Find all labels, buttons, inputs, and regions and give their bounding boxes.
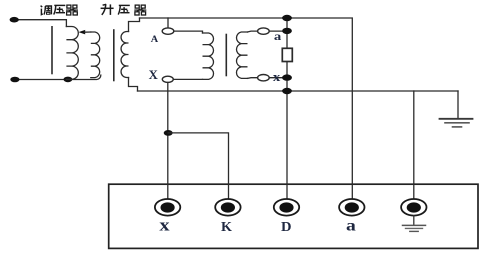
core bar: T1 xyxy=(113,30,115,81)
panel terminal x xyxy=(155,199,180,216)
label 器 #1 xyxy=(66,5,78,15)
wire: top-left input to variac top xyxy=(14,20,66,27)
terminal ellipse X xyxy=(162,76,173,82)
svg-text:K: K xyxy=(221,219,233,234)
label 升 xyxy=(101,4,114,15)
svg-text:a: a xyxy=(274,29,281,43)
core bar: variac xyxy=(51,27,53,74)
resistor R (discharge) xyxy=(282,48,292,61)
label 器 #2 xyxy=(134,5,146,15)
node: bus/x xyxy=(282,74,292,80)
svg-text:x: x xyxy=(273,69,281,84)
winding T2 LV (a-x) xyxy=(236,32,247,78)
node: variac bottom junction xyxy=(64,77,73,83)
wire: wiper tail to T1 primary xyxy=(85,31,91,33)
terminal dot: bottom-left input xyxy=(10,77,19,83)
panel terminal K xyxy=(215,199,240,216)
panel terminal D xyxy=(274,199,299,216)
svg-text:X: X xyxy=(149,68,158,82)
ground symbol under panel earth terminal xyxy=(403,216,426,232)
svg-text:a: a xyxy=(346,217,356,234)
terminal ellipse x xyxy=(258,75,270,81)
winding T2 HV (A-X) xyxy=(203,33,214,79)
terminal ellipse A xyxy=(162,28,174,34)
wire: bottom rail tap down to panel earth terminal xyxy=(413,91,415,199)
wire: x lead inside panel xyxy=(167,184,169,199)
core bar: T2 xyxy=(225,35,227,76)
node: bus/bottom-rail xyxy=(282,88,292,94)
wire: right bus from top rail down to panel terminal D xyxy=(286,18,288,199)
wire: bottom-left input to variac bottom rail xyxy=(15,75,101,79)
label 调 xyxy=(41,6,52,15)
panel terminal earth xyxy=(401,199,426,216)
wire: X down to panel terminal x xyxy=(167,82,169,199)
panel terminal a xyxy=(339,199,364,216)
node: x/K tap junction xyxy=(164,130,173,136)
winding L1: variac coil xyxy=(66,27,78,80)
winding T1 secondary xyxy=(121,32,128,78)
svg-text:x: x xyxy=(159,215,170,234)
wire: tap junction to panel terminal K xyxy=(168,133,228,199)
wire: stub from top rail to terminal A xyxy=(167,18,169,28)
label 压 #1 xyxy=(54,5,66,14)
panel box xyxy=(109,184,478,248)
wire: T1 secondary bottom lead to bottom rail xyxy=(129,78,138,92)
wiper arrow of variac xyxy=(79,30,86,35)
wire: D lead inside panel xyxy=(286,184,288,199)
winding T1 primary xyxy=(91,32,100,78)
wire: a to right bus xyxy=(269,30,287,32)
wire: LV top to terminal a xyxy=(248,30,258,33)
wire: top rail xyxy=(140,18,353,199)
wire: K lead inside panel xyxy=(228,184,230,199)
wire: bottom rail to right ground xyxy=(138,90,459,92)
wire: a lead inside panel xyxy=(351,184,353,199)
terminal ellipse a xyxy=(258,28,270,34)
node: bus/a xyxy=(282,28,292,34)
wire: A to HV winding top xyxy=(174,31,203,33)
wire: x to right bus xyxy=(269,77,287,79)
svg-text:A: A xyxy=(151,34,158,45)
wire: T1 secondary top lead to top rail xyxy=(129,18,140,32)
wire: earth lead inside panel xyxy=(413,184,415,199)
ground symbol right xyxy=(440,91,473,127)
svg-text:D: D xyxy=(281,219,292,234)
wire: LV bottom to terminal x xyxy=(248,77,258,80)
wire: HV winding bottom to X xyxy=(173,78,202,80)
label 压 #2 xyxy=(118,5,130,14)
node: bus/top-rail xyxy=(282,15,292,21)
terminal dot: top-left input xyxy=(10,17,19,23)
